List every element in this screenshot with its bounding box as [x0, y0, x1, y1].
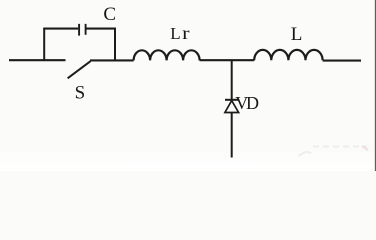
wire: capacitor branch right vertical	[114, 29, 116, 61]
wire: capacitor branch top left	[43, 28, 78, 30]
wire: capacitor branch top right	[86, 28, 116, 30]
scan edge line right	[374, 0, 376, 171]
wire: left feed	[9, 59, 66, 61]
svg-text:S: S	[75, 83, 86, 104]
watermark smudge bottom right	[299, 146, 368, 156]
svg-text:VD: VD	[235, 93, 259, 113]
svg-text:L: L	[291, 24, 303, 45]
inductor L coil	[254, 50, 322, 60]
wire: switch to Lr	[90, 59, 134, 61]
wire: L to right end	[323, 60, 361, 62]
wire: capacitor branch left vertical	[43, 29, 45, 61]
wire: Lr to L (through diode node)	[200, 59, 255, 61]
inductor Lr coil	[134, 50, 200, 60]
wire: diode branch upper	[231, 60, 233, 99]
switch S blade	[68, 61, 91, 78]
diode VD cathode bar	[225, 99, 238, 101]
capacitor C plates	[79, 24, 86, 36]
svg-text:C: C	[103, 4, 116, 25]
diode VD triangle	[225, 101, 239, 113]
svg-text:L: L	[170, 24, 180, 43]
svg-text:r: r	[182, 23, 189, 43]
wire: diode branch lower	[231, 113, 233, 158]
